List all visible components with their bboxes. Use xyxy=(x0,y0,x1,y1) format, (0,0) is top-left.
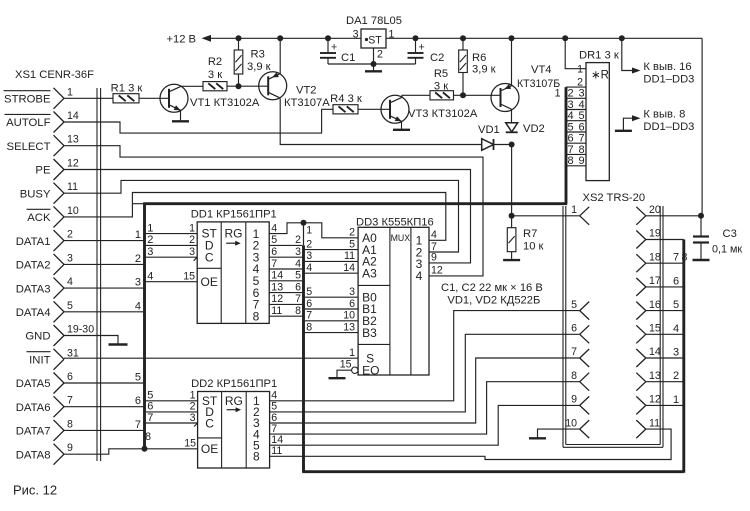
XS2 pin 12 xyxy=(636,394,661,415)
svg-text:2: 2 xyxy=(189,234,195,246)
wire DD1 pin 7 into bus xyxy=(269,258,302,270)
wire bus to DD1 pin 1 xyxy=(146,222,198,234)
wire bus to DD2 pin 1 xyxy=(146,390,198,402)
svg-text:R5: R5 xyxy=(434,68,448,80)
svg-text:12: 12 xyxy=(67,158,79,170)
svg-text:14: 14 xyxy=(649,346,661,358)
svg-text:C2: C2 xyxy=(430,52,444,64)
svg-text:5: 5 xyxy=(571,299,577,311)
wire DATA1 into bus xyxy=(64,229,143,241)
svg-text:7: 7 xyxy=(571,346,577,358)
XS2 pin 18 xyxy=(636,251,661,272)
wire ACK branch to group bus A xyxy=(132,203,143,205)
svg-text:3: 3 xyxy=(306,250,312,262)
svg-text:DATA6: DATA6 xyxy=(16,402,51,414)
wire VD junction down to XS2 pin1 net xyxy=(511,145,513,216)
wire rail down to pin20 node xyxy=(701,38,703,216)
svg-text:+: + xyxy=(419,42,425,54)
svg-text:16: 16 xyxy=(649,299,661,311)
wire bus to DD2 pin 2 xyxy=(146,401,198,413)
svg-text:1: 1 xyxy=(555,88,561,100)
XS1 pin 1 STROBE xyxy=(4,86,74,109)
svg-text:15: 15 xyxy=(184,438,196,450)
svg-text:7: 7 xyxy=(67,395,73,407)
svg-text:3: 3 xyxy=(578,88,584,100)
svg-text:DATA8: DATA8 xyxy=(16,449,51,461)
DA1 ground xyxy=(365,64,382,71)
svg-text:R4 3 к: R4 3 к xyxy=(330,93,362,105)
DR1 pin 6 wire xyxy=(566,131,586,133)
svg-text:8: 8 xyxy=(145,431,151,443)
XS2 pin 1 xyxy=(571,204,589,225)
wire VT4 collector to VD2 xyxy=(511,110,513,123)
wire bus to DD3 input 5 xyxy=(305,286,358,298)
svg-text:OE: OE xyxy=(201,442,218,456)
node DR1 pin1 on rail xyxy=(562,35,568,41)
svg-text:8: 8 xyxy=(306,321,312,333)
XS2 pin 5 xyxy=(571,299,589,320)
svg-text:14: 14 xyxy=(343,262,355,274)
svg-text:BUSY: BUSY xyxy=(20,188,51,200)
svg-text:3: 3 xyxy=(135,277,141,289)
XS1 pin 2 DATA1 xyxy=(16,229,73,252)
svg-text:A3: A3 xyxy=(362,266,377,280)
svg-text:7: 7 xyxy=(567,144,573,156)
wire bus to DD3 input 6 xyxy=(305,298,358,310)
svg-text:DD1 КР1561ПР1: DD1 КР1561ПР1 xyxy=(191,208,277,220)
DD3 left pin number labels xyxy=(340,227,355,371)
wire bus to DD3 input 3 xyxy=(305,250,358,262)
DD3 pin 7 output label xyxy=(431,241,437,253)
wire R4 to VT3 base xyxy=(358,108,390,110)
wire XS2 pin 17 to bus xyxy=(646,275,684,287)
XS1 pin 7 DATA6 xyxy=(16,395,73,418)
ground tap arrow K vyv.8 DD1-DD3 xyxy=(615,109,694,133)
wire bus to DD2 pin 3 xyxy=(146,412,198,424)
svg-text:9: 9 xyxy=(431,252,437,264)
svg-text:К выв. 8: К выв. 8 xyxy=(643,109,685,121)
svg-text:7: 7 xyxy=(271,258,277,270)
group bus A vertical segment at DR1 xyxy=(565,87,568,204)
XS1 pin 12 PE xyxy=(35,158,78,181)
svg-text:DA1 78L05: DA1 78L05 xyxy=(346,15,402,27)
wire DATA2 into bus xyxy=(64,253,143,265)
svg-text:XS2 TRS-20: XS2 TRS-20 xyxy=(583,192,646,204)
wire DD2 pin 11 to XS2 pin 11 xyxy=(270,429,671,459)
wire XS2 pin 15 to bus xyxy=(646,323,684,335)
svg-text:1: 1 xyxy=(673,394,679,406)
svg-text:R3: R3 xyxy=(251,49,265,61)
svg-text:2: 2 xyxy=(306,238,312,250)
svg-text:1: 1 xyxy=(189,222,195,234)
DR1 pin 1 wire to rail xyxy=(565,38,586,75)
DR1 ladder cell labels xyxy=(555,88,585,168)
svg-text:7: 7 xyxy=(673,252,679,264)
svg-text:B3: B3 xyxy=(362,326,377,340)
svg-text:5: 5 xyxy=(135,372,141,384)
svg-text:11: 11 xyxy=(271,305,282,317)
svg-text:4: 4 xyxy=(578,99,584,111)
svg-text:VD2: VD2 xyxy=(523,123,545,135)
svg-text:9: 9 xyxy=(578,155,584,167)
wire DD2 pin 14 to XS2 xyxy=(270,405,580,446)
svg-text:К выв. 16: К выв. 16 xyxy=(643,61,691,73)
XS2 pin 20 xyxy=(636,204,661,225)
node K vyv.16 on rail xyxy=(619,35,625,41)
XS2 pin 19 xyxy=(636,228,661,249)
svg-text:3: 3 xyxy=(67,252,73,264)
svg-text:INIT: INIT xyxy=(29,355,50,367)
svg-text:3,9 к: 3,9 к xyxy=(247,61,271,73)
svg-text:2: 2 xyxy=(135,253,141,265)
svg-text:11: 11 xyxy=(271,445,282,457)
svg-text:8: 8 xyxy=(67,418,73,430)
svg-text:DD1–DD3: DD1–DD3 xyxy=(643,121,694,133)
svg-text:DR1 3 к: DR1 3 к xyxy=(579,49,619,61)
+12V power rail xyxy=(166,34,702,46)
svg-text:STROBE: STROBE xyxy=(4,94,51,106)
node bus B top junction xyxy=(301,220,307,226)
resistor R1 3k xyxy=(111,83,143,103)
svg-text:OE: OE xyxy=(201,275,218,289)
XS1 pin 4 DATA3 xyxy=(16,276,73,299)
svg-text:10: 10 xyxy=(565,417,577,429)
XS2 pin 10 xyxy=(565,417,589,438)
wire AUTOLF to R4 xyxy=(64,109,333,133)
svg-text:12: 12 xyxy=(431,265,443,277)
svg-text:XS1 CENR-36F: XS1 CENR-36F xyxy=(15,69,94,81)
XS2 shell rails xyxy=(563,206,663,447)
resistor R7 10k xyxy=(507,216,543,260)
svg-text:RG: RG xyxy=(225,394,243,408)
XS1 pin 14 AUTOLF xyxy=(5,110,79,133)
svg-text:7: 7 xyxy=(135,419,141,431)
svg-text:13: 13 xyxy=(67,134,79,146)
svg-text:4: 4 xyxy=(431,229,437,241)
svg-text:КТ3107А: КТ3107А xyxy=(284,97,330,109)
svg-text:5: 5 xyxy=(673,299,679,311)
svg-text:C1: C1 xyxy=(341,52,355,64)
svg-text:GND: GND xyxy=(25,331,50,343)
svg-text:6: 6 xyxy=(295,281,301,293)
svg-text:DATA5: DATA5 xyxy=(16,378,51,390)
svg-text:ST: ST xyxy=(368,35,382,47)
svg-text:5: 5 xyxy=(67,300,73,312)
capacitor C2 22uF xyxy=(408,38,445,64)
DD3 pin 12 output label xyxy=(431,265,443,277)
svg-text:DD3 К555КП16: DD3 К555КП16 xyxy=(356,216,434,228)
svg-text:15: 15 xyxy=(183,271,195,283)
svg-text:15: 15 xyxy=(340,359,352,371)
DR1 pin 2 wire xyxy=(566,86,586,88)
svg-text:19: 19 xyxy=(649,228,661,240)
wire DD1 pin4 output to node and DD3 A0 xyxy=(269,222,358,237)
svg-text:VD1: VD1 xyxy=(478,124,500,136)
svg-text:2: 2 xyxy=(567,88,573,100)
wire XS2 pin 16 to bus xyxy=(646,299,684,311)
svg-text:3: 3 xyxy=(295,246,301,258)
svg-text:5: 5 xyxy=(567,121,573,133)
svg-text:С3: С3 xyxy=(723,228,737,240)
wire XS2 pin 14 to bus xyxy=(646,347,684,359)
svg-text:13: 13 xyxy=(343,321,355,333)
svg-text:7: 7 xyxy=(295,293,301,305)
node VT4 emitter on rail xyxy=(509,35,515,41)
svg-text:19-30: 19-30 xyxy=(67,324,94,336)
svg-text:VT4: VT4 xyxy=(531,64,552,76)
voltage regulator DA1 78L05 xyxy=(346,15,402,64)
svg-text:7: 7 xyxy=(147,412,153,424)
svg-text:9: 9 xyxy=(67,442,73,454)
svg-text:DD2 КР1561ПР1: DD2 КР1561ПР1 xyxy=(191,378,277,390)
node VD1/VD2 junction xyxy=(509,142,515,148)
VT3 emitter ground xyxy=(393,121,410,130)
svg-text:10: 10 xyxy=(67,205,79,217)
svg-text:6: 6 xyxy=(306,298,312,310)
svg-text:DATA3: DATA3 xyxy=(16,283,51,295)
wire VT4 emitter to rail xyxy=(511,38,513,85)
XS2 pin 15 xyxy=(636,323,661,344)
svg-text:20: 20 xyxy=(649,204,661,216)
node VT2 emitter on rail xyxy=(277,35,283,41)
wire DATA5 into bus xyxy=(64,372,143,384)
wire bus to DD1 pin 2 xyxy=(146,234,198,246)
svg-text:3: 3 xyxy=(673,347,679,359)
wire DD1 pin 12 into bus xyxy=(269,293,302,305)
wire DD1 pin 14 into bus xyxy=(269,270,302,282)
XS2 pin 11 xyxy=(636,417,660,438)
wire DD1 pin 5 into bus xyxy=(269,234,302,246)
node R7 top junction xyxy=(509,213,515,219)
node R3 top on +12V rail xyxy=(236,35,242,41)
svg-text:4: 4 xyxy=(306,262,312,274)
svg-text:3,9 к: 3,9 к xyxy=(472,64,496,76)
svg-text:6: 6 xyxy=(567,133,573,145)
XS2 pin 8 xyxy=(571,370,589,391)
group bus A horizontal segment xyxy=(143,202,567,205)
XS2 pin 13 xyxy=(636,370,661,391)
DR1 pin 5 wire xyxy=(566,120,586,122)
R7 ground xyxy=(503,259,520,261)
wire XS2 pin 20 to C3 node xyxy=(646,215,701,217)
svg-text:8: 8 xyxy=(571,370,577,382)
XS1 pin 19-30 GND xyxy=(25,324,94,347)
svg-text:1: 1 xyxy=(349,347,355,359)
svg-text:12: 12 xyxy=(271,293,283,305)
XS1 GND ground symbol xyxy=(109,343,128,345)
svg-text:4: 4 xyxy=(135,300,141,312)
wire XS2 pin 19 to bus xyxy=(646,240,688,264)
svg-text:3: 3 xyxy=(147,246,153,258)
DR1 pin 9 wire xyxy=(566,165,586,167)
svg-text:13: 13 xyxy=(271,281,283,293)
svg-text:4: 4 xyxy=(416,269,423,283)
DD3 EO ground xyxy=(329,370,352,378)
svg-text:11: 11 xyxy=(649,417,660,429)
wire GND pin to ground xyxy=(64,336,118,344)
svg-text:1: 1 xyxy=(306,224,312,236)
DD3 pin 4 output label xyxy=(431,229,437,241)
svg-text:5: 5 xyxy=(349,238,355,250)
svg-text:R2: R2 xyxy=(208,56,222,68)
svg-text:3: 3 xyxy=(190,412,196,424)
wire DD2 pin 5 to XS2 xyxy=(270,334,580,412)
svg-text:3 к: 3 к xyxy=(208,69,222,81)
XS2 pin10 ground wire xyxy=(529,429,580,438)
DD1 clock input mark xyxy=(194,257,198,261)
svg-text:17: 17 xyxy=(649,275,661,287)
wire VT1 collector to R2 xyxy=(181,85,203,87)
wire bus to DD1 pin 15 xyxy=(146,271,198,283)
XS2 pin 14 xyxy=(636,346,661,367)
svg-text:8: 8 xyxy=(295,305,301,317)
wire VT3 collector to R5 xyxy=(402,95,430,97)
svg-text:6: 6 xyxy=(67,371,73,383)
wire XS2 pin 12 to bus xyxy=(646,394,684,406)
wire PE to DD3 pin9 xyxy=(64,170,471,263)
DR1 pin 4 wire xyxy=(566,109,586,111)
svg-text:5: 5 xyxy=(295,270,301,282)
group bus B right vertical xyxy=(682,240,685,473)
svg-text:AUTOLF: AUTOLF xyxy=(6,117,50,129)
svg-text:3: 3 xyxy=(567,99,573,111)
svg-text:MUX: MUX xyxy=(391,233,411,243)
svg-text:4: 4 xyxy=(673,323,679,335)
node pin20/C3 xyxy=(698,213,704,219)
XS1 pin 5 DATA4 xyxy=(16,300,73,323)
wire bus to DD3 input 4 xyxy=(305,262,358,274)
svg-text:R7: R7 xyxy=(523,228,537,240)
svg-text:VT2: VT2 xyxy=(296,85,317,97)
svg-text:10: 10 xyxy=(343,310,355,322)
wire VD1 cathode to junction xyxy=(494,144,512,146)
svg-text:3: 3 xyxy=(189,246,195,258)
svg-text:6: 6 xyxy=(673,275,679,287)
svg-text:9: 9 xyxy=(571,394,577,406)
wire VT2 collector down and right to VD1 xyxy=(280,99,482,145)
svg-text:2: 2 xyxy=(295,234,301,246)
XS1 pin 13 SELECT xyxy=(7,134,79,157)
svg-text:1: 1 xyxy=(571,204,577,216)
svg-text:Рис. 12: Рис. 12 xyxy=(13,483,57,498)
svg-text:11: 11 xyxy=(67,181,78,193)
svg-text:6: 6 xyxy=(349,298,355,310)
svg-text:DD1–DD3: DD1–DD3 xyxy=(643,73,694,85)
svg-text:6: 6 xyxy=(571,323,577,335)
node R6 top on rail xyxy=(460,35,466,41)
resistor R6 3.9k xyxy=(459,38,496,95)
capacitor C1 22uF xyxy=(320,38,355,64)
svg-text:ACK: ACK xyxy=(27,212,51,224)
power tap arrow K vyv.16 DD1-DD3 xyxy=(622,38,695,85)
svg-text:1: 1 xyxy=(389,29,395,41)
XS1 pin 3 DATA2 xyxy=(16,252,73,275)
wire XS2 pin 18 to bus xyxy=(646,252,684,264)
svg-text:15: 15 xyxy=(649,323,661,335)
node DATA8 bus bottom junction xyxy=(142,446,148,452)
svg-text:VT3 КТ3102А: VT3 КТ3102А xyxy=(408,108,478,120)
svg-text:1: 1 xyxy=(67,86,73,98)
svg-text:31: 31 xyxy=(67,347,79,359)
svg-text:2: 2 xyxy=(377,49,383,61)
svg-text:C: C xyxy=(205,416,214,430)
svg-text:2: 2 xyxy=(67,229,73,241)
XS1 pin 11 BUSY xyxy=(20,181,78,204)
svg-text:5: 5 xyxy=(306,286,312,298)
svg-text:10 к: 10 к xyxy=(523,241,544,253)
node C1 top on rail xyxy=(325,35,331,41)
DD3 pin 9 output label xyxy=(431,252,437,264)
wire DATA7 into bus xyxy=(64,419,143,431)
DR1 pin 7 wire xyxy=(566,142,586,144)
svg-text:8: 8 xyxy=(253,309,260,323)
XS2 pin 7 xyxy=(571,346,589,367)
XS1 pin 31 INIT xyxy=(27,347,79,370)
wire VT2 emitter to rail xyxy=(279,38,281,73)
node DA1 pin2 on ground bus xyxy=(371,61,377,67)
wire DD2 pin 4 to XS2 xyxy=(270,311,580,402)
svg-text:DATA2: DATA2 xyxy=(16,260,51,272)
diode VD2 KD522B xyxy=(506,123,545,135)
node C2 top on rail xyxy=(413,35,419,41)
XS1 cable double rail lines xyxy=(97,88,101,461)
wire STROBE to R1 xyxy=(64,97,113,99)
group bus A left vertical segment xyxy=(143,203,146,449)
DD2 clock input mark xyxy=(194,423,198,427)
svg-text:2: 2 xyxy=(349,227,355,239)
wire INIT to DD3 pin1 S xyxy=(64,357,358,359)
wire DATA8 to DD2 OE xyxy=(64,431,198,454)
svg-text:1: 1 xyxy=(135,229,141,241)
svg-text:R1 3 к: R1 3 к xyxy=(111,83,143,95)
resistor R5 3k xyxy=(430,68,454,100)
wire DD1 pin 11 into bus xyxy=(269,305,302,317)
wire DD1 pin 13 into bus xyxy=(269,281,302,293)
resistor network DR1 3k xyxy=(579,49,619,180)
XS1 pin 8 DATA7 xyxy=(16,418,73,441)
XS1 pin 9 DATA8 xyxy=(16,442,73,465)
wire DD1 pin 6 into bus xyxy=(269,246,302,258)
svg-text:∗R: ∗R xyxy=(591,70,609,82)
svg-text:4: 4 xyxy=(271,222,277,234)
svg-text:SELECT: SELECT xyxy=(7,141,51,153)
svg-text:13: 13 xyxy=(649,370,661,382)
svg-text:6: 6 xyxy=(578,121,584,133)
XS2 pin 6 xyxy=(571,323,589,344)
svg-text:12: 12 xyxy=(649,394,661,406)
svg-text:8: 8 xyxy=(253,450,260,464)
wire DATA6 into bus xyxy=(64,395,143,407)
resistor R3 3.9k xyxy=(234,38,270,86)
DR1 pin 3 wire xyxy=(566,97,586,99)
resistor R4 3k xyxy=(330,93,362,114)
wire bus to DD3 input 8 xyxy=(305,321,358,333)
svg-text:RG: RG xyxy=(225,227,243,241)
transistor VT4 KT3107B xyxy=(491,64,560,112)
C3 ground xyxy=(693,259,710,261)
IC DD1 КР1561ПР1 xyxy=(191,208,277,323)
node R5/R6 junction xyxy=(460,92,466,98)
wire ACK to DD3 pin4 xyxy=(64,193,446,241)
svg-text:3: 3 xyxy=(353,29,359,41)
wire BUSY to DD3 pin7 xyxy=(64,180,459,252)
svg-text:2: 2 xyxy=(673,370,679,382)
svg-text:0,1 мк: 0,1 мк xyxy=(712,243,742,255)
XS2 pin 17 xyxy=(636,275,661,296)
svg-text:14: 14 xyxy=(271,270,283,282)
group bus B bottom horizontal xyxy=(302,470,684,473)
IC DD2 КР1561ПР1 xyxy=(191,378,277,468)
